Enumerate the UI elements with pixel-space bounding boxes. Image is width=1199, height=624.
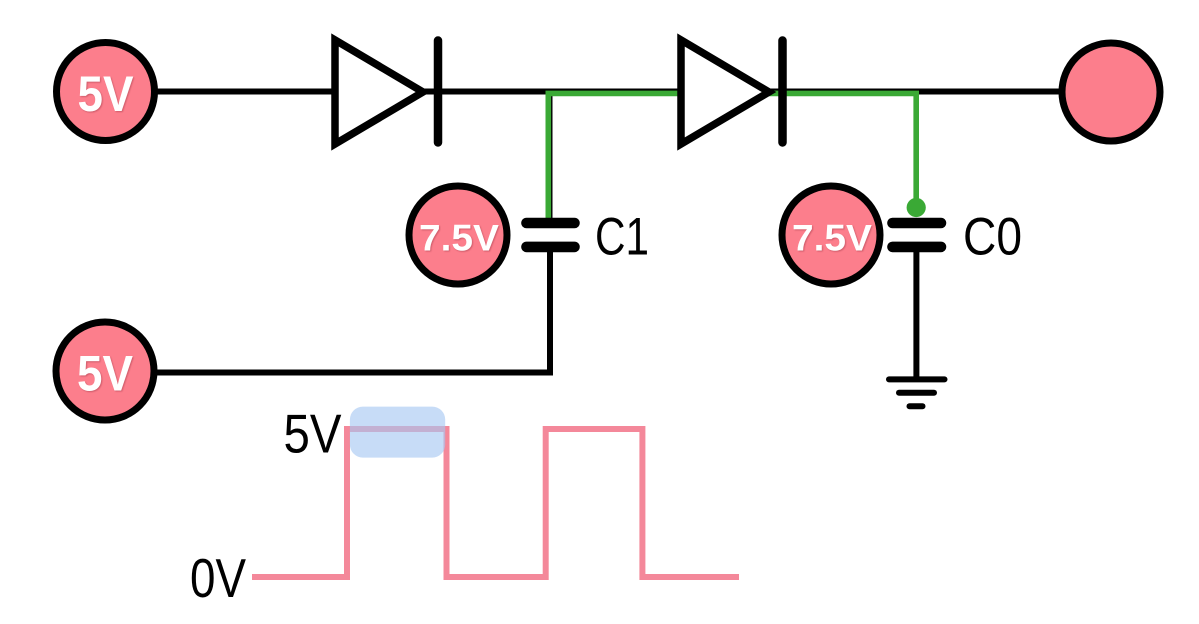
svg-text:5V: 5V <box>78 66 135 122</box>
svg-text:C1: C1 <box>595 208 649 267</box>
svg-text:7.5V: 7.5V <box>419 218 499 259</box>
terminal output right <box>1062 43 1160 141</box>
svg-text:5V: 5V <box>284 403 342 465</box>
svg-text:0V: 0V <box>190 547 246 609</box>
ground <box>889 379 945 406</box>
svg-text:C0: C0 <box>963 208 1022 267</box>
probe 7.5V left <box>409 186 507 284</box>
diode D2 <box>681 40 783 144</box>
wire vertical black under green at C1 <box>548 93 552 218</box>
wire bottom horizontal <box>157 370 553 376</box>
wire top horizontal <box>157 89 1059 95</box>
wire C1 bottom vertical <box>547 252 553 373</box>
probe 7.5V right <box>782 186 880 284</box>
node junction green dot <box>907 198 926 217</box>
capacitor C0 plates <box>893 223 942 247</box>
highlight blue rounded rect <box>350 407 445 458</box>
green net wire <box>548 93 916 218</box>
terminal 5V bottom-left <box>56 322 154 420</box>
capacitor C1 plates <box>527 223 575 247</box>
svg-text:7.5V: 7.5V <box>792 218 872 259</box>
wire C0 to ground <box>913 252 919 379</box>
diode D1 <box>335 40 438 144</box>
svg-text:5V: 5V <box>77 346 134 402</box>
terminal 5V top-left <box>57 43 155 141</box>
waveform square wave <box>252 429 739 577</box>
